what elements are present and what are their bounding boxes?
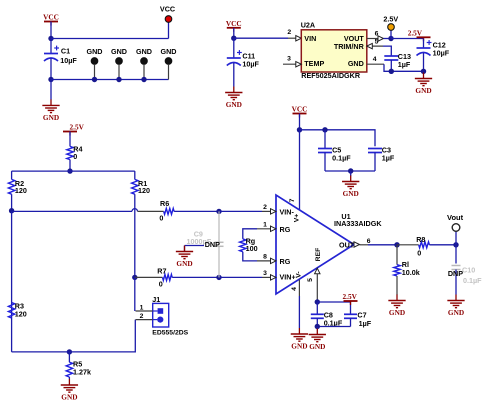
svg-text:VIN-: VIN- <box>280 207 295 216</box>
svg-text:C10: C10 <box>462 266 475 275</box>
power flag 2.5V (bridge excitation) <box>63 123 85 136</box>
svg-text:V-: V- <box>296 271 303 277</box>
pin 2 stub of J1 <box>136 313 153 320</box>
testpoint TP 2.5V (orange) <box>383 14 398 30</box>
svg-text:2.5V: 2.5V <box>69 123 84 132</box>
svg-text:GND: GND <box>43 113 59 122</box>
wire caps bottom bus <box>325 170 375 172</box>
svg-text:7: 7 <box>289 198 296 202</box>
pin 2 VIN stub of U2A <box>287 29 301 41</box>
svg-text:2: 2 <box>140 313 144 320</box>
wire ground bus <box>51 79 169 81</box>
testpoint TP GND 2 (black) <box>111 47 127 80</box>
testpoint TP GND 4 (black) <box>161 47 177 80</box>
wire VCC flag to node <box>50 22 52 39</box>
power flag VCC (U2A input) <box>226 19 242 32</box>
node left rail bottom junction R5 <box>67 349 72 354</box>
svg-text:0: 0 <box>73 152 77 161</box>
svg-text:GND: GND <box>111 47 127 56</box>
svg-text:C1: C1 <box>61 46 70 55</box>
svg-text:0: 0 <box>159 280 163 289</box>
svg-text:VIN+: VIN+ <box>280 273 296 282</box>
pin 6 VOUT stub of U2A <box>367 31 384 42</box>
node left rail / VIN- rail <box>9 208 14 213</box>
wire R1 rail to J1 pin 1 <box>134 277 136 311</box>
svg-text:120: 120 <box>15 186 27 195</box>
wire C7 bottom to C8 bottom <box>317 326 350 328</box>
svg-text:RG: RG <box>280 225 291 234</box>
svg-text:10µF: 10µF <box>60 56 77 65</box>
resistor R3 120 <box>8 302 26 319</box>
wire pin 4 to ground <box>298 296 300 328</box>
resistor Rl 10.0k (load) <box>394 245 420 295</box>
node VOUT junction <box>388 36 393 41</box>
ground (U1 V-) <box>291 328 308 351</box>
label DNP for C9 <box>205 240 220 249</box>
wire bottom rail <box>12 320 136 352</box>
node VCC/C11/U2A <box>231 36 236 41</box>
svg-text:100: 100 <box>246 244 258 253</box>
svg-text:VCC: VCC <box>43 13 59 22</box>
wire VOUT node to C12/2.5V flag <box>391 38 424 40</box>
svg-text:0.1µF: 0.1µF <box>463 276 482 285</box>
wire VCC right to caps <box>300 130 376 147</box>
node VCC-C1 junction <box>48 36 53 41</box>
pin 5 stub of U1 (REF) <box>315 268 320 302</box>
svg-text:GND: GND <box>448 308 464 317</box>
svg-text:GND: GND <box>161 47 177 56</box>
wire REF node to 2.5V flag corner <box>317 302 350 315</box>
ground (C12/U2A) <box>415 73 432 96</box>
pin 3 TEMP stub of U2A <box>283 55 301 67</box>
capacitor C7 1uF <box>344 311 372 329</box>
svg-text:4: 4 <box>291 287 298 291</box>
ground (C8/C7) <box>309 327 326 352</box>
wire U2A GND down and right <box>384 64 424 71</box>
ground (C5/C3) <box>342 171 359 198</box>
svg-text:TRIM/NR: TRIM/NR <box>334 42 365 51</box>
svg-text:GND: GND <box>348 59 364 68</box>
wire C1 to ground symbol <box>50 80 52 100</box>
pin 2 stub of U1 (VIN-) <box>262 204 276 214</box>
svg-text:2.5V: 2.5V <box>408 29 423 38</box>
svg-text:DNP: DNP <box>448 269 463 278</box>
svg-text:ED555/2DS: ED555/2DS <box>152 330 188 337</box>
node C12 bottom junction <box>421 69 426 74</box>
svg-text:GND: GND <box>87 47 103 56</box>
node TP GND 1 junction <box>92 77 97 82</box>
capacitor C10 0.1uF DNP (grey) <box>452 245 483 295</box>
svg-text:TEMP: TEMP <box>304 59 324 68</box>
resistor R4 0 <box>67 132 83 172</box>
wire VIN- to op-amp pin 2 <box>219 210 262 212</box>
svg-text:6: 6 <box>375 31 379 38</box>
node C13 bottom junction <box>389 69 394 74</box>
svg-text:GND: GND <box>309 342 325 351</box>
pin 4 GND stub of U2A <box>367 56 384 64</box>
wire to U2A pin 2 <box>234 37 288 39</box>
resistor R8 0 <box>397 235 456 258</box>
wire C9 DNP ground stub <box>185 245 205 247</box>
svg-text:REF: REF <box>315 248 322 262</box>
ground (Rl) <box>388 295 405 318</box>
ground (C1 / bus) <box>42 99 59 122</box>
svg-text:2.5V: 2.5V <box>383 14 398 23</box>
connector J1 ED555/2DS <box>152 295 188 337</box>
resistor R7 0 <box>135 267 219 289</box>
power flag 2.5V (REF pin) <box>342 292 357 305</box>
svg-text:GND: GND <box>389 308 405 317</box>
svg-text:3: 3 <box>263 270 267 277</box>
wire VOUT to 2.5V node <box>384 38 392 40</box>
wire OUT to RI node <box>368 244 397 246</box>
wire VIN- rail left segment <box>12 210 132 212</box>
svg-text:VCC: VCC <box>226 19 242 28</box>
wire top rail <box>12 170 135 172</box>
node VIN+ rail left junction <box>132 275 137 280</box>
ground (C10 DNP) <box>447 295 464 318</box>
node TP GND 3 junction <box>141 77 146 82</box>
svg-text:2: 2 <box>287 29 291 36</box>
capacitor C8 0.1uF <box>311 302 343 328</box>
svg-text:RG: RG <box>280 257 291 266</box>
wire VIN+ to op-amp pin 3 <box>219 276 262 278</box>
svg-text:GND: GND <box>343 189 359 198</box>
node VIN+ / C9 bottom <box>216 275 221 280</box>
svg-text:VCC: VCC <box>160 5 175 14</box>
node TP GND 2 junction <box>116 77 121 82</box>
svg-text:GND: GND <box>415 86 431 95</box>
power flag VCC (net VCC, top-left) <box>43 13 59 26</box>
testpoint TP GND 1 (black) <box>87 47 103 80</box>
resistor Rg 100 (gain set) <box>240 229 258 261</box>
wire hop over R1 rail (no connect) <box>132 209 138 212</box>
power flag 2.5V (REF output) <box>408 29 431 42</box>
capacitor C1 10uF <box>44 39 77 80</box>
svg-text:R8: R8 <box>416 235 425 244</box>
svg-text:1µF: 1µF <box>382 154 395 163</box>
svg-text:1µF: 1µF <box>359 319 372 328</box>
node OUT / RI junction <box>394 242 399 247</box>
voltage reference U2A REF5025AIDGKR <box>301 21 367 80</box>
svg-text:5: 5 <box>307 278 314 282</box>
svg-text:120: 120 <box>15 310 27 319</box>
op-amp U1 INA333AIDGK <box>276 195 382 294</box>
svg-text:0: 0 <box>159 213 163 222</box>
pin 8 stub of U1 (RG) <box>257 254 276 264</box>
capacitor C5 0.1uF <box>318 130 351 171</box>
wire up to testpoint TP-VCC <box>168 22 170 38</box>
svg-text:OUT: OUT <box>339 240 355 249</box>
svg-text:GND: GND <box>291 342 307 351</box>
svg-text:10µF: 10µF <box>433 48 450 57</box>
svg-text:GND: GND <box>226 100 242 109</box>
wire VCC flag to node <box>299 114 301 130</box>
svg-text:GND: GND <box>136 47 152 56</box>
svg-text:8: 8 <box>263 254 267 261</box>
power flag VCC (op-amp supply) <box>292 105 308 118</box>
capacitor C3 1uF <box>368 145 395 171</box>
capacitor C12 10uF <box>417 39 450 72</box>
svg-text:R6: R6 <box>160 199 169 208</box>
svg-text:U2A: U2A <box>301 21 315 30</box>
node C1 bottom / ground bus <box>48 77 53 82</box>
svg-text:0: 0 <box>417 249 421 258</box>
ground (C9 DNP) <box>176 246 193 269</box>
svg-text:REF5025AIDGKR: REF5025AIDGKR <box>301 71 361 80</box>
svg-text:INA333AIDGK: INA333AIDGK <box>334 219 382 228</box>
svg-text:J1: J1 <box>152 295 160 304</box>
svg-text:10µF: 10µF <box>242 60 259 69</box>
pin 1 stub of U1 (RG) <box>257 222 276 232</box>
resistor R1 120 <box>132 171 150 277</box>
svg-text:6: 6 <box>367 238 371 245</box>
node VCC / C5C3 tap <box>297 127 302 132</box>
wire VCC horizontal to testpoint TP-VCC <box>51 38 169 40</box>
capacitor C11 10uF <box>227 38 260 86</box>
svg-text:R7: R7 <box>157 267 166 276</box>
node R4 bottom on top rail <box>67 168 72 173</box>
wire left rail down to bottom rail <box>11 211 13 352</box>
terminal Vout <box>447 213 464 232</box>
svg-text:DNP: DNP <box>205 240 220 249</box>
svg-text:1µF: 1µF <box>398 60 411 69</box>
svg-text:3: 3 <box>287 55 291 62</box>
resistor R6 0 <box>138 199 220 222</box>
node C5 top <box>322 127 327 132</box>
pin 3 stub of U1 (VIN+) <box>262 270 276 280</box>
svg-text:VIN: VIN <box>304 34 316 43</box>
pin 6 OUT stub of U1 <box>354 238 371 247</box>
svg-text:5: 5 <box>375 39 379 46</box>
capacitor C9 1000pF DNP (grey) <box>187 211 224 277</box>
node C8 bottom junction <box>315 324 320 329</box>
label DNP for C10 <box>448 269 463 278</box>
svg-text:10.0k: 10.0k <box>402 268 420 277</box>
wire up to Vout terminal <box>455 231 457 245</box>
svg-text:1: 1 <box>263 222 267 229</box>
svg-text:4: 4 <box>373 56 377 63</box>
node REF junction <box>315 299 320 304</box>
capacitor C13 1uF <box>384 52 411 71</box>
svg-text:120: 120 <box>138 186 150 195</box>
svg-text:GND: GND <box>61 393 77 402</box>
pin 4 stub of U1 (V-) <box>298 280 300 296</box>
testpoint TP GND 3 (black) <box>136 47 152 80</box>
svg-text:VCC: VCC <box>292 105 308 114</box>
ground (C11) <box>225 87 242 110</box>
testpoint TP VCC (red) <box>160 5 175 23</box>
wire up to testpoint TP 2.5V <box>390 30 392 38</box>
svg-text:1: 1 <box>140 304 144 311</box>
wire VCC flag to node <box>233 28 235 38</box>
svg-text:V+: V+ <box>294 214 301 223</box>
svg-text:Vout: Vout <box>447 213 464 222</box>
svg-text:0.1µF: 0.1µF <box>332 154 351 163</box>
svg-text:GND: GND <box>176 259 192 268</box>
pin 1 stub of J1 <box>136 304 153 311</box>
pin 5 TRIM/NR stub of U2A <box>367 39 383 49</box>
svg-text:2.5V: 2.5V <box>342 292 357 301</box>
node Vout junction <box>453 242 458 247</box>
svg-text:1.27k: 1.27k <box>73 368 91 377</box>
node VIN- / C9 top <box>216 209 221 214</box>
wire TRIM/NR to C13 <box>383 46 391 56</box>
ground (R5) <box>61 379 78 402</box>
svg-text:2: 2 <box>263 204 267 211</box>
resistor R5 1.27k <box>66 352 91 379</box>
wire VCC down to op-amp pin 7 <box>299 130 301 210</box>
node caps ground tap <box>348 168 353 173</box>
resistor R2 120 <box>8 171 27 211</box>
